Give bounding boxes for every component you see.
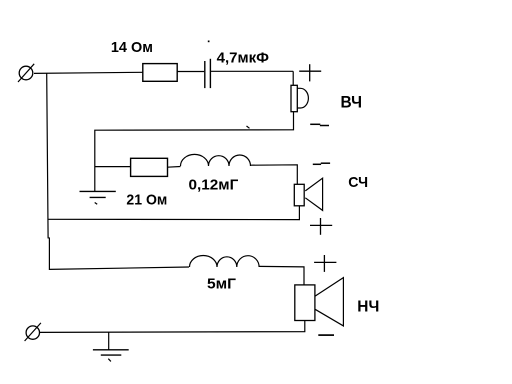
svg-text:НЧ: НЧ bbox=[357, 299, 379, 316]
svg-text:ВЧ: ВЧ bbox=[341, 94, 363, 112]
svg-text:21 Ом: 21 Ом bbox=[126, 192, 167, 209]
svg-text:14 Ом: 14 Ом bbox=[111, 39, 153, 56]
svg-text:5мГ: 5мГ bbox=[207, 275, 237, 292]
svg-text:СЧ: СЧ bbox=[348, 174, 368, 191]
svg-text:0,12мГ: 0,12мГ bbox=[189, 177, 239, 194]
svg-text:4,7мкФ: 4,7мкФ bbox=[217, 49, 270, 66]
